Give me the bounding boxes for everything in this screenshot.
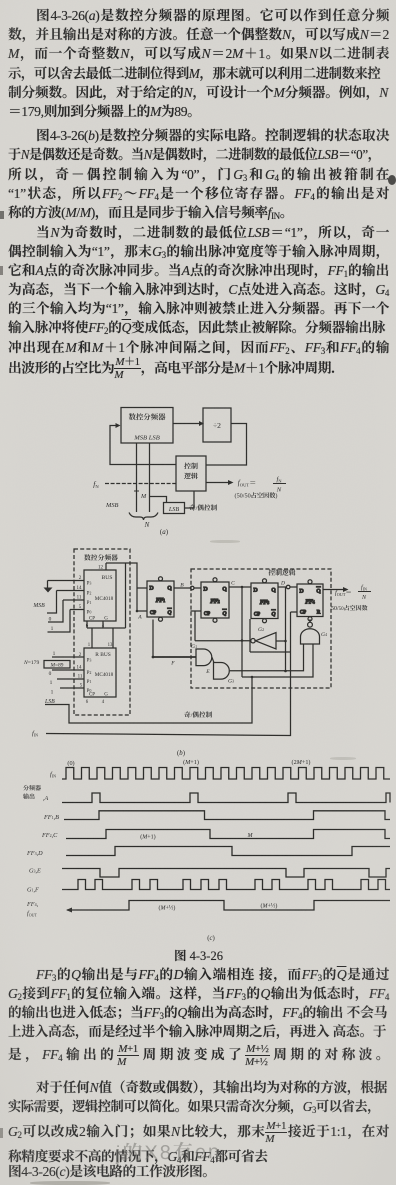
label C row FF2: [41, 830, 58, 839]
wire U1 P1 input row pin11: [48, 600, 84, 622]
caption (c): [207, 932, 215, 942]
svg-text:G1: G1: [191, 642, 197, 650]
wire LSB branch to odd/even control: [150, 497, 167, 503]
annotation M+1 on C row: [140, 832, 155, 841]
svg-text:B: B: [180, 581, 184, 589]
svg-text:FF4: FF4: [304, 596, 314, 605]
wire control logic clock out to divider with arrow: [110, 423, 176, 465]
label ÷2: [213, 420, 221, 431]
svg-text:Q: Q: [272, 610, 276, 618]
svg-text:C: C: [231, 579, 235, 587]
svg-text:0: 0: [49, 669, 52, 677]
waveform F G1 output gated clock: [62, 880, 390, 890]
svg-text:P3: P3: [87, 580, 92, 587]
wire output fOUT with arrow: [206, 480, 234, 485]
label node E: [205, 667, 210, 675]
svg-text:M=89: M=89: [50, 661, 64, 669]
wire U2 P0 input row pin5: [60, 687, 84, 689]
svg-text:FF3,D: FF3,D: [26, 848, 43, 857]
svg-text:0: 0: [49, 615, 52, 623]
svg-text:G2: G2: [258, 625, 264, 633]
label U1 MC4018: [95, 595, 114, 602]
svg-text:D: D: [149, 584, 153, 592]
wire node C FF2 Q to FF3 D: [229, 586, 251, 589]
svg-text:MC4018: MC4018: [95, 671, 114, 678]
wire G2 out to FF2 CP: [191, 611, 202, 641]
waveform OUT FF4 output: [66, 901, 390, 913]
labels U1 pin numbers: [77, 574, 83, 610]
svg-text:FF4,: FF4,: [26, 899, 39, 908]
svg-text:Q: Q: [223, 609, 227, 617]
label node D: [280, 579, 285, 587]
labels U1 input levels MSB 0 1: [32, 600, 53, 632]
wire U1 BUS pin12 to node A vertical: [106, 563, 137, 611]
waveform E G3 output: [62, 869, 390, 878]
waveform C FF2 output: [66, 830, 390, 839]
wire U1 to FF1 D: [137, 587, 147, 589]
svg-text:1: 1: [51, 688, 54, 696]
svg-text:,A: ,A: [43, 793, 49, 802]
svg-text:6: 6: [86, 698, 89, 705]
svg-text:FF3: FF3: [259, 597, 269, 606]
svg-text:G3,E: G3,E: [29, 866, 41, 875]
label G2: [258, 625, 264, 633]
wire node C down to gate line: [241, 587, 244, 677]
svg-text:M: M: [247, 830, 254, 839]
svg-text:P1: P1: [87, 599, 92, 606]
wire node D FF3 Q to FF4 D with connector: [278, 585, 297, 589]
label 控制逻辑 enclosure: [268, 567, 295, 577]
block: divide-by-2 ÷2: [203, 408, 231, 442]
wire ÷2 feedback to control logic: [206, 424, 247, 466]
svg-text:Q: Q: [167, 584, 171, 592]
label node C: [231, 579, 235, 587]
label LSB tag: [168, 504, 180, 513]
dashed enclosure 数控分频器: [74, 549, 130, 715]
svg-text:G4: G4: [321, 630, 327, 638]
wire U1 P3 input row pin2: [44, 581, 85, 593]
wire FF4 Q to output arrow: [323, 587, 349, 592]
annotation M on C row: [247, 830, 254, 839]
svg-text:11: 11: [77, 594, 82, 601]
NAND gate G4 vertical: [301, 619, 320, 644]
block: control logic 控制逻辑: [176, 456, 206, 491]
svg-text:FF1: FF1: [155, 595, 165, 604]
labels U1 P pins: [87, 580, 92, 616]
svg-text:R BUS: R BUS: [95, 650, 110, 658]
svg-text:Q: Q: [168, 608, 172, 616]
label fIN row: [50, 769, 56, 779]
wire divider to ÷2 with arrow: [173, 421, 204, 426]
svg-text:CP: CP: [150, 609, 156, 616]
svg-text:Q: Q: [222, 585, 226, 593]
label MSB LSB pins: [133, 432, 159, 442]
wire U2 P3 input row pin2: [52, 656, 84, 658]
svg-text:(2M+1): (2M+1): [292, 757, 311, 766]
svg-text:(M+1): (M+1): [183, 757, 199, 766]
svg-text:奇/偶控制: 奇/偶控制: [184, 709, 213, 719]
svg-text:1: 1: [88, 641, 91, 648]
marker (2M+1): [292, 757, 311, 766]
svg-text:数控分频器: 数控分频器: [84, 552, 118, 562]
svg-text:A: A: [137, 613, 142, 621]
svg-text:G: G: [104, 615, 108, 622]
svg-text:BUS: BUS: [102, 573, 113, 581]
label U2 CP G pins: [86, 691, 108, 706]
svg-text:÷2: ÷2: [213, 420, 221, 431]
label U1 BUS: [102, 573, 113, 581]
M=89 tag box: [44, 661, 70, 669]
label M: [140, 491, 147, 500]
svg-text:控制逻辑: 控制逻辑: [268, 567, 295, 577]
label U2 R BUS: [95, 650, 110, 658]
wire input fN dashed: [105, 483, 176, 485]
waveform D FF3 output: [66, 847, 390, 856]
svg-text:1: 1: [50, 678, 53, 686]
waveform B FF1 output: [64, 811, 390, 820]
wire bus vertical to U2: [87, 563, 126, 648]
wire G3 output to G4 input: [230, 644, 304, 671]
svg-text:FF2: FF2: [209, 596, 219, 605]
label N under brace: [144, 520, 150, 530]
label U1 CP G pins: [86, 615, 108, 630]
svg-text:(a): (a): [160, 527, 169, 537]
svg-text:Q: Q: [316, 587, 320, 595]
wire node D down through buffer tap: [284, 587, 287, 672]
label node F: [170, 659, 175, 667]
svg-text:N: N: [144, 520, 150, 530]
labels U2 P pins: [87, 657, 92, 695]
svg-text:LSB: LSB: [168, 504, 180, 513]
wire odd/even to G4 second input: [242, 644, 313, 678]
svg-text:13: 13: [108, 641, 113, 648]
caption (a): [160, 527, 169, 537]
svg-text:fIN: fIN: [50, 769, 56, 779]
svg-text:1: 1: [53, 649, 56, 657]
svg-text:CP: CP: [89, 615, 95, 622]
svg-text:fOUT＝: fOUT＝: [238, 478, 256, 489]
svg-text:数控分频器: 数控分频器: [129, 412, 167, 423]
label fIN: [32, 727, 38, 738]
label fOUT = fN/N: [238, 473, 286, 494]
label N=179: [23, 658, 39, 666]
svg-text:逻辑: 逻辑: [184, 472, 198, 482]
wire node F thick line into G1: [152, 656, 196, 659]
label A row 分频器输出: [23, 783, 49, 802]
svg-text:(c): (c): [207, 932, 215, 942]
svg-text:G3: G3: [228, 677, 234, 685]
svg-text:E: E: [205, 667, 210, 675]
label G3: [228, 677, 234, 685]
waveform A divider output pulses: [62, 793, 390, 803]
label M=89: [50, 661, 64, 669]
annotation M+1/2 first: [159, 903, 176, 912]
caption (b): [177, 747, 185, 757]
AND gate G3: [212, 657, 229, 679]
labels U2 pin numbers: [77, 651, 83, 689]
svg-text:F: F: [170, 659, 175, 667]
svg-text:N=179: N=179: [23, 658, 39, 666]
label E row G3: [29, 866, 41, 875]
wire U2 P1 input row pin11: [57, 678, 84, 680]
svg-text:CP: CP: [204, 610, 210, 617]
wire U1 P0 input row pin5: [48, 610, 85, 633]
svg-text:FF1,B: FF1,B: [43, 812, 59, 821]
flip-flop FF3: [251, 579, 278, 623]
label 数控分频器 enclosure: [84, 552, 118, 562]
buffer G2 inverter: [195, 633, 286, 650]
label G4: [321, 630, 327, 638]
label 奇/偶控制: [184, 709, 213, 719]
flip-flop FF4: [297, 580, 323, 621]
svg-text:M: M: [140, 491, 147, 500]
wire odd/even control into control logic: [185, 491, 195, 508]
svg-text:FF2,C: FF2,C: [41, 830, 58, 839]
svg-text:CP: CP: [300, 609, 306, 616]
svg-text:fIN: fIN: [32, 727, 38, 738]
wire N input MSB line: [136, 443, 138, 512]
svg-text:MSB: MSB: [105, 500, 119, 509]
label node A: [137, 613, 142, 621]
label G1: [191, 642, 197, 650]
wire U2 P2 input row pin14: [52, 669, 84, 671]
svg-text:MC4018: MC4018: [95, 595, 114, 602]
label U2 MC4018: [95, 671, 114, 678]
svg-text:CP: CP: [89, 691, 95, 698]
wire LSB to odd/even control line: [45, 678, 252, 724]
svg-text:50/50占空因数: 50/50占空因数: [331, 603, 368, 612]
wire FF1 bottom to node F line: [152, 620, 154, 658]
LSB tag box: [164, 503, 185, 514]
svg-text:fOUT: fOUT: [27, 908, 38, 918]
svg-text:1: 1: [51, 624, 54, 632]
svg-text:控制: 控制: [184, 462, 198, 472]
label node B: [180, 581, 184, 589]
IC U2 MC4018 counter: [84, 648, 116, 697]
svg-text:(M+1): (M+1): [140, 832, 155, 841]
labels U2 input levels 1 0 1 1 LSB: [44, 649, 56, 705]
label D row FF3: [26, 848, 43, 857]
label MSB: [105, 500, 119, 509]
label 控制逻辑: [184, 462, 198, 482]
svg-text:fIN: fIN: [361, 582, 367, 592]
svg-text:G1,F: G1,F: [27, 885, 39, 894]
block: digital frequency divider 数控分频器: [121, 408, 173, 444]
IC U1 MC4018 counter: [84, 570, 116, 621]
label OUT row FF4 fOUT: [26, 899, 39, 918]
marker (M+1): [183, 757, 199, 766]
svg-text:MSB LSB: MSB LSB: [133, 432, 159, 442]
svg-text:11: 11: [78, 673, 83, 680]
label 数控分频器: [129, 412, 167, 423]
wire node A to FF1 CP: [136, 610, 147, 613]
svg-text:Q: Q: [271, 586, 275, 594]
label U1 pin12: [98, 564, 104, 571]
svg-text:D: D: [203, 585, 207, 593]
marker (0): [67, 758, 74, 767]
svg-text:fN: fN: [93, 479, 99, 491]
svg-text:MSB: MSB: [32, 600, 45, 609]
svg-text:D: D: [253, 586, 257, 594]
svg-text:LSB: LSB: [44, 696, 55, 705]
label U2 top pin numbers: [88, 641, 113, 648]
label 50/50占空因数: [331, 603, 368, 612]
label fN input: [93, 479, 99, 491]
svg-text:G: G: [104, 691, 108, 698]
flip-flop FF1: [147, 577, 174, 622]
svg-text:N: N: [361, 592, 367, 601]
svg-text:(M+½): (M+½): [159, 903, 176, 912]
svg-text:(0): (0): [67, 758, 74, 767]
label 50/50 duty: [235, 491, 278, 500]
svg-text:奇/偶控制: 奇/偶控制: [189, 502, 218, 512]
wire node B FF1 Q to FF2 D with connector: [174, 586, 201, 590]
svg-text:P3: P3: [87, 657, 92, 664]
wire N input bit line: [149, 443, 151, 512]
waveform fIN clock: [62, 768, 390, 780]
svg-text:4: 4: [102, 698, 105, 705]
flip-flop FF2: [201, 578, 229, 623]
AND gate G1: [196, 649, 212, 666]
label 奇/偶控制: [189, 502, 218, 512]
svg-text:P1: P1: [87, 678, 92, 685]
svg-text:(50/50占空因数): (50/50占空因数): [235, 491, 278, 500]
svg-text:D: D: [299, 587, 303, 595]
brace under N lines: [129, 513, 158, 521]
label fOUT = fIN/N: [335, 582, 371, 601]
M bracket tick: [134, 491, 139, 499]
svg-text:14: 14: [77, 664, 83, 671]
svg-text:P2: P2: [87, 590, 92, 597]
wire fIN distribution: [46, 612, 297, 736]
svg-text:输出: 输出: [23, 792, 35, 801]
annotation M+1/2 second: [261, 901, 278, 910]
wire U1 P2 input row pin14 MSB: [47, 591, 84, 614]
svg-text:P2: P2: [87, 669, 92, 676]
svg-text:12: 12: [98, 564, 104, 571]
svg-text:D: D: [280, 579, 285, 587]
svg-text:(M+½): (M+½): [261, 901, 278, 910]
label F row G1: [27, 885, 39, 894]
label B row FF1: [43, 812, 59, 821]
dashed enclosure 控制逻辑: [191, 569, 331, 688]
svg-text:14: 14: [77, 584, 83, 591]
svg-text:CP: CP: [254, 611, 260, 618]
svg-text:R: R: [317, 608, 321, 616]
